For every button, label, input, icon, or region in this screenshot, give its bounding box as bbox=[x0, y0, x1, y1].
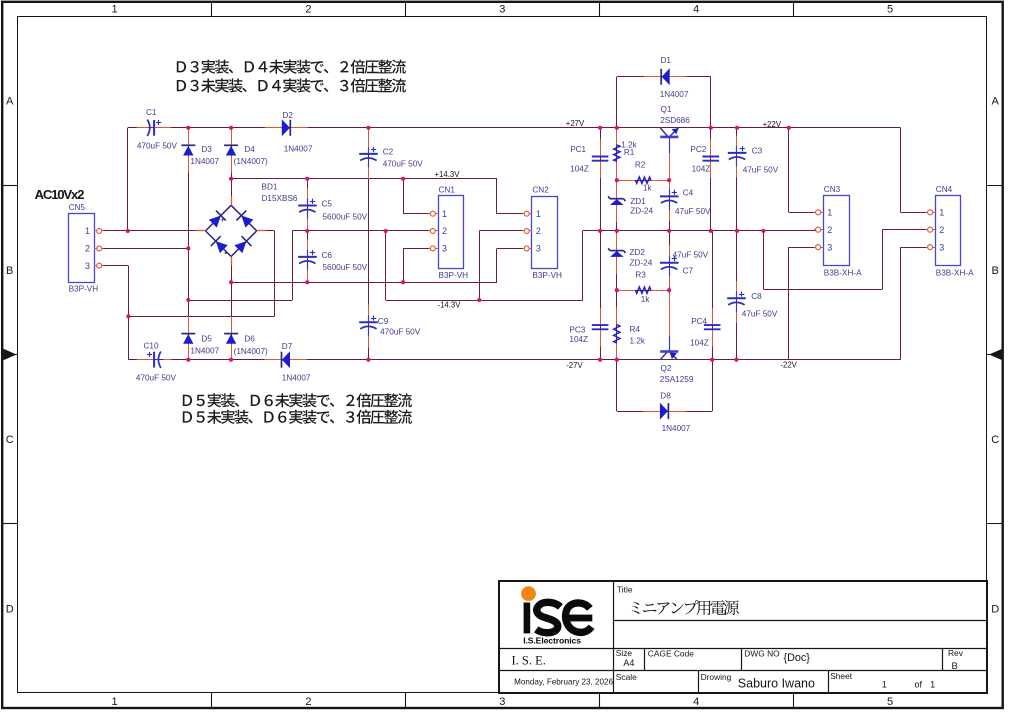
svg-text:ZD-24: ZD-24 bbox=[630, 207, 653, 216]
svg-text:B: B bbox=[952, 661, 958, 672]
svg-text:1N4007: 1N4007 bbox=[190, 347, 219, 356]
svg-text:A: A bbox=[992, 96, 1000, 108]
svg-text:1N4007: 1N4007 bbox=[660, 90, 689, 99]
svg-text:47uF 50V: 47uF 50V bbox=[742, 310, 778, 319]
svg-text:2: 2 bbox=[939, 225, 944, 235]
svg-text:I. S. E.: I. S. E. bbox=[512, 654, 546, 668]
svg-text:(1N4007): (1N4007) bbox=[234, 157, 268, 166]
svg-text:D: D bbox=[6, 603, 14, 615]
svg-text:D6: D6 bbox=[244, 335, 255, 344]
svg-text:D1: D1 bbox=[661, 56, 672, 65]
svg-text:104Z: 104Z bbox=[692, 164, 711, 173]
svg-text:1: 1 bbox=[85, 226, 90, 236]
svg-text:D15XBS6: D15XBS6 bbox=[262, 194, 298, 203]
svg-text:5: 5 bbox=[887, 696, 893, 708]
svg-text:Scale: Scale bbox=[616, 672, 637, 682]
svg-text:CN2: CN2 bbox=[532, 186, 549, 195]
svg-text:5: 5 bbox=[887, 4, 893, 16]
svg-text:Q2: Q2 bbox=[661, 364, 672, 373]
svg-text:PC4: PC4 bbox=[691, 317, 707, 326]
svg-text:1N4007: 1N4007 bbox=[282, 373, 311, 382]
svg-text:Drowing: Drowing bbox=[701, 672, 732, 682]
svg-text:1N4007: 1N4007 bbox=[662, 424, 691, 433]
svg-text:D5: D5 bbox=[201, 335, 212, 344]
svg-text:D3: D3 bbox=[201, 145, 212, 154]
svg-text:1: 1 bbox=[939, 208, 944, 218]
svg-text:CAGE Code: CAGE Code bbox=[648, 648, 694, 658]
svg-text:C: C bbox=[991, 434, 999, 446]
svg-text:PC3: PC3 bbox=[569, 326, 585, 335]
svg-text:Q1: Q1 bbox=[661, 105, 672, 114]
svg-text:D2: D2 bbox=[283, 111, 294, 120]
svg-text:1: 1 bbox=[442, 209, 447, 219]
svg-text:1N4007: 1N4007 bbox=[190, 157, 219, 166]
svg-text:4: 4 bbox=[693, 696, 699, 708]
svg-text:470uF 50V: 470uF 50V bbox=[136, 373, 177, 382]
svg-text:+: + bbox=[220, 215, 225, 224]
svg-text:104Z: 104Z bbox=[569, 335, 588, 344]
svg-text:D7: D7 bbox=[282, 342, 293, 351]
svg-text:PC1: PC1 bbox=[570, 145, 586, 154]
svg-text:47uF 50V: 47uF 50V bbox=[743, 166, 779, 175]
svg-text:B: B bbox=[6, 265, 13, 277]
svg-text:1: 1 bbox=[111, 4, 117, 16]
svg-text:3: 3 bbox=[939, 242, 944, 252]
svg-text:4: 4 bbox=[693, 4, 699, 16]
svg-text:5600uF 50V: 5600uF 50V bbox=[323, 263, 368, 272]
svg-text:Rev: Rev bbox=[948, 648, 964, 658]
svg-text:D4: D4 bbox=[244, 145, 255, 154]
svg-text:-22V: -22V bbox=[780, 361, 797, 370]
svg-text:CN4: CN4 bbox=[936, 185, 953, 194]
svg-text:5600uF 50V: 5600uF 50V bbox=[323, 212, 368, 221]
svg-text:1: 1 bbox=[827, 208, 832, 218]
svg-text:47uF 50V: 47uF 50V bbox=[673, 250, 709, 259]
svg-text:ZD-24: ZD-24 bbox=[630, 258, 653, 267]
svg-text:Title: Title bbox=[617, 585, 633, 595]
svg-text:C7: C7 bbox=[683, 266, 694, 275]
svg-text:of: of bbox=[914, 679, 922, 689]
svg-text:DWG NO: DWG NO bbox=[744, 648, 780, 658]
svg-text:Sheet: Sheet bbox=[830, 671, 853, 681]
svg-text:1k: 1k bbox=[643, 184, 653, 193]
svg-text:BD1: BD1 bbox=[262, 182, 278, 191]
svg-text:Size: Size bbox=[616, 648, 633, 658]
svg-text:470uF 50V: 470uF 50V bbox=[137, 142, 178, 151]
svg-text:CN3: CN3 bbox=[824, 185, 841, 194]
svg-text:-27V: -27V bbox=[566, 361, 583, 370]
svg-text:Saburo Iwano: Saburo Iwano bbox=[738, 676, 815, 690]
svg-text:2: 2 bbox=[827, 225, 832, 235]
svg-text:R3: R3 bbox=[635, 271, 646, 280]
svg-text:1k: 1k bbox=[641, 295, 651, 304]
svg-text:1: 1 bbox=[111, 696, 117, 708]
svg-text:(1N4007): (1N4007) bbox=[234, 347, 268, 356]
svg-text:47uF 50V: 47uF 50V bbox=[675, 207, 711, 216]
svg-text:2SA1259: 2SA1259 bbox=[660, 375, 694, 384]
svg-text:B3P-VH: B3P-VH bbox=[532, 271, 562, 280]
svg-text:C3: C3 bbox=[752, 146, 763, 155]
svg-text:R2: R2 bbox=[635, 161, 646, 170]
svg-text:+22V: +22V bbox=[763, 120, 782, 129]
svg-text:C5: C5 bbox=[322, 200, 333, 209]
svg-text:D: D bbox=[991, 603, 999, 615]
svg-text:I.S.Electronics: I.S.Electronics bbox=[523, 636, 581, 646]
svg-text:3: 3 bbox=[536, 244, 541, 254]
svg-text:{Doc}: {Doc} bbox=[784, 652, 811, 664]
svg-text:C8: C8 bbox=[751, 292, 762, 301]
svg-text:3: 3 bbox=[827, 242, 832, 252]
svg-text:B3P-VH: B3P-VH bbox=[439, 271, 469, 280]
svg-text:CN5: CN5 bbox=[69, 203, 86, 212]
svg-text:ZD2: ZD2 bbox=[630, 248, 646, 257]
svg-text:C4: C4 bbox=[683, 189, 694, 198]
svg-text:A: A bbox=[6, 96, 14, 108]
svg-text:104Z: 104Z bbox=[690, 339, 709, 348]
svg-text:2: 2 bbox=[85, 244, 90, 254]
svg-text:-14.3V: -14.3V bbox=[438, 300, 462, 309]
svg-text:C9: C9 bbox=[378, 317, 389, 326]
svg-text:2: 2 bbox=[536, 226, 541, 236]
svg-text:+14.3V: +14.3V bbox=[435, 170, 461, 179]
svg-text:470uF 50V: 470uF 50V bbox=[383, 159, 424, 168]
svg-text:B3B-XH-A: B3B-XH-A bbox=[936, 268, 974, 277]
svg-text:470uF 50V: 470uF 50V bbox=[380, 327, 421, 336]
svg-text:C: C bbox=[6, 434, 14, 446]
svg-text:B3B-XH-A: B3B-XH-A bbox=[824, 268, 862, 277]
svg-text:1.2k: 1.2k bbox=[630, 337, 646, 346]
svg-text:3: 3 bbox=[85, 261, 90, 271]
svg-text:1: 1 bbox=[930, 679, 935, 689]
svg-text:1N4007: 1N4007 bbox=[284, 145, 313, 154]
svg-text:2: 2 bbox=[305, 4, 311, 16]
svg-text:PC2: PC2 bbox=[690, 145, 706, 154]
svg-text:R1: R1 bbox=[624, 148, 635, 157]
svg-text:104Z: 104Z bbox=[570, 164, 589, 173]
svg-text:A4: A4 bbox=[623, 658, 634, 668]
svg-text:2: 2 bbox=[305, 696, 311, 708]
svg-text:1: 1 bbox=[882, 679, 887, 689]
svg-text:3: 3 bbox=[442, 244, 447, 254]
svg-text:+27V: +27V bbox=[566, 119, 585, 128]
svg-text:3: 3 bbox=[499, 4, 505, 16]
svg-text:ZD1: ZD1 bbox=[630, 197, 646, 206]
svg-text:2: 2 bbox=[442, 226, 447, 236]
svg-text:C2: C2 bbox=[383, 148, 394, 157]
svg-text:3: 3 bbox=[499, 696, 505, 708]
svg-text:D8: D8 bbox=[660, 392, 671, 401]
svg-text:B3P-VH: B3P-VH bbox=[69, 285, 99, 294]
svg-text:C1: C1 bbox=[146, 108, 157, 117]
svg-text:1: 1 bbox=[536, 209, 541, 219]
svg-text:R4: R4 bbox=[630, 325, 641, 334]
svg-text:CN1: CN1 bbox=[439, 185, 456, 194]
svg-text:2SD686: 2SD686 bbox=[660, 116, 690, 125]
svg-text:AC10Vx2: AC10Vx2 bbox=[35, 187, 85, 202]
svg-text:C10: C10 bbox=[144, 342, 159, 351]
svg-text:C6: C6 bbox=[322, 251, 333, 260]
svg-text:B: B bbox=[992, 265, 999, 277]
svg-text:Monday, February 23, 2026: Monday, February 23, 2026 bbox=[514, 678, 613, 687]
